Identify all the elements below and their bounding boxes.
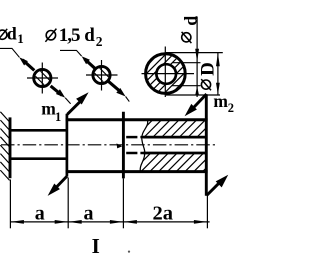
step line at section change [66, 114, 69, 177]
svg-text:d: d [7, 24, 17, 44]
section circle d1 [34, 69, 51, 86]
dimension line diameter D [217, 53, 219, 95]
extension line at shaft end [206, 196, 208, 229]
arrows of dimension D [216, 53, 220, 66]
moment arrow lower (through section 1,5d2) [108, 81, 121, 92]
label diameter D (rotated) [201, 80, 210, 89]
shaft right end line [205, 94, 208, 196]
arrows of dimension d [195, 49, 199, 63]
outer extension line top [166, 52, 223, 54]
bore outline top (solid) [143, 136, 205, 139]
label diameter d (rotated) [182, 33, 191, 42]
moment m2 upper arrow [193, 94, 206, 108]
extension line at wall [9, 180, 11, 229]
leader line to section circle d1 [0, 48, 19, 57]
section cut line I [122, 112, 125, 179]
dimension arrows [10, 220, 24, 224]
dimension line [10, 221, 209, 223]
small arrow on axis at cut line [117, 143, 123, 148]
inner extension line top [172, 62, 201, 64]
shaft large section top edge [66, 118, 208, 121]
label diameter d1 [0, 30, 7, 39]
wall line [9, 117, 12, 178]
svg-text:a: a [35, 202, 45, 224]
extension line below cut line [122, 178, 124, 228]
moment m2 lower arrow [207, 183, 220, 196]
svg-text:D: D [197, 62, 218, 76]
inner extension line bottom [172, 85, 201, 87]
svg-text:2a: 2a [153, 203, 174, 225]
label diameter 1,5d2 [46, 31, 55, 40]
dimension line diameter d [196, 17, 198, 98]
shaft large section bottom edge [66, 170, 208, 173]
section circle 1,5d2 [93, 66, 110, 83]
svg-text:1: 1 [17, 31, 24, 46]
svg-text:2: 2 [96, 34, 103, 49]
svg-text:1,5: 1,5 [59, 25, 80, 46]
extension line at step [67, 178, 69, 229]
bore hidden dashes top [126, 136, 137, 139]
moment arrow upper (through section 1,5d2) [82, 56, 90, 64]
moment arrow lower (through section d1) [51, 86, 62, 95]
break (wavy) line [140, 120, 147, 173]
svg-text:I: I [92, 234, 100, 258]
hollow section centerlines [142, 73, 195, 75]
moment arrow upper (through section d1) [19, 57, 28, 65]
svg-text:m: m [41, 99, 56, 119]
outer extension line bottom [166, 94, 220, 96]
moment m1 upper arrow [67, 101, 81, 115]
svg-text:a: a [84, 202, 94, 224]
svg-text:1: 1 [55, 110, 61, 124]
small dot artifact [128, 251, 130, 253]
bore hidden dashes bottom [126, 152, 137, 155]
moment m1 lower arrow [56, 176, 67, 187]
svg-text:2: 2 [228, 101, 234, 115]
svg-text:d: d [181, 16, 201, 26]
shaft small section bottom edge [9, 157, 67, 160]
wall (fixed support) hatching [0, 112, 9, 181]
shaft small section top edge [9, 129, 67, 132]
leader line to section circle 1,5d2 [60, 50, 82, 56]
svg-text:d: d [84, 25, 95, 46]
svg-text:m: m [213, 91, 228, 111]
shaft axis centerline [1, 144, 217, 146]
bore outline bottom (solid) [143, 152, 205, 155]
